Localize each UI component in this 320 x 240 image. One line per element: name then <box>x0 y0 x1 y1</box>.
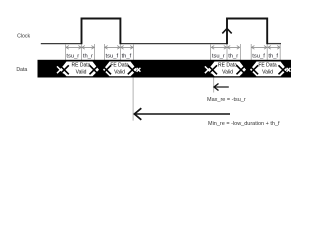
svg-text:tsu_f: tsu_f <box>252 53 265 59</box>
hexagon 2: FE Data Valid <box>103 62 137 77</box>
svg-text:FE Data: FE Data <box>110 63 129 69</box>
clock pulse 2 <box>227 19 267 45</box>
wire clock low segment 1 <box>41 43 82 45</box>
long vertical reference line at th_f (1) <box>132 78 134 121</box>
dimension ticks group 1 (rising edge 1) <box>66 44 95 60</box>
svg-text:Valid: Valid <box>114 70 125 76</box>
wire clock low segment 2 <box>120 43 227 45</box>
svg-text:RE Data: RE Data <box>72 63 91 69</box>
rising edge arrow (chevron up) on pulse 2 <box>222 29 231 34</box>
hexagon 1: RE Data Valid <box>60 62 99 77</box>
dimension ticks group 2 (falling edge 1) <box>104 44 133 60</box>
dimension arrow tsu_f (1) <box>105 46 120 50</box>
wire clock low segment 3 <box>267 43 281 45</box>
svg-text:tsu_r: tsu_r <box>66 53 79 59</box>
svg-text:th_f: th_f <box>268 53 278 59</box>
dimension arrow th_f (1) <box>121 46 133 50</box>
svg-text:Data: Data <box>16 67 27 73</box>
arrow Min_re (long left arrow) <box>134 108 230 120</box>
svg-text:Clock: Clock <box>17 33 30 39</box>
black X marks at hexagon tips <box>60 65 288 74</box>
data bus band <box>38 60 292 78</box>
svg-text:Max_re = -tsu_r: Max_re = -tsu_r <box>207 97 246 103</box>
dimension arrow tsu_f (2) <box>252 46 267 50</box>
svg-text:th_r: th_r <box>83 53 93 59</box>
svg-text:Valid: Valid <box>76 70 87 76</box>
dimension arrow tsu_r (1) <box>66 46 81 50</box>
svg-text:Valid: Valid <box>262 70 273 76</box>
tick below band at Max_re reference <box>213 78 215 93</box>
dimension arrow th_f (2) <box>268 46 280 50</box>
svg-text:tsu_r: tsu_r <box>212 53 225 59</box>
svg-text:th_f: th_f <box>122 53 132 59</box>
clock pulse 1 <box>82 19 121 45</box>
hexagon 4: FE Data Valid <box>250 62 287 77</box>
svg-text:RE Data: RE Data <box>218 63 237 69</box>
svg-text:Min_re = -low_duration + th_f: Min_re = -low_duration + th_f <box>208 121 280 127</box>
svg-text:Valid: Valid <box>222 70 233 76</box>
svg-text:th_r: th_r <box>228 53 238 59</box>
dimension arrow th_r (1) <box>82 46 94 50</box>
svg-text:tsu_f: tsu_f <box>106 53 119 59</box>
arrow Max_re (short left arrow) <box>214 84 229 91</box>
dimension arrow tsu_r (2) <box>211 46 226 50</box>
dimension ticks group 4 (falling edge 2) <box>251 44 280 60</box>
white transition X marks under hexagons <box>57 66 290 73</box>
svg-text:FE Data: FE Data <box>258 63 277 69</box>
hexagon 3: RE Data Valid <box>208 62 246 77</box>
dimension arrow th_r (2) <box>227 46 239 50</box>
dimension ticks group 3 (rising edge 2) <box>211 44 241 60</box>
